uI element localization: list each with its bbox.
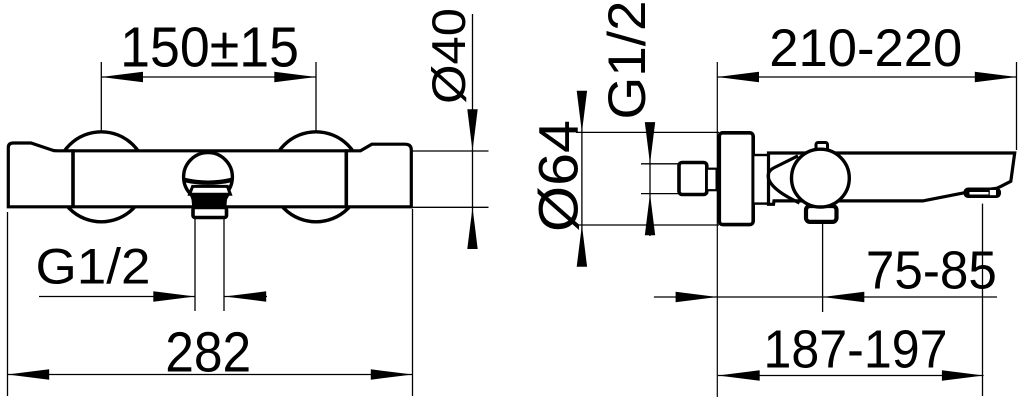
arrow right of 187-197 — [942, 370, 984, 380]
top nub — [816, 143, 828, 155]
svg-text:210-220: 210-220 — [769, 19, 962, 78]
sphere band — [184, 180, 232, 183]
arrow up Ø40 — [467, 207, 477, 249]
dim line — [8, 374, 413, 376]
handle circle — [792, 149, 850, 207]
centerline handle — [822, 222, 824, 312]
arrow left of 210-220 — [717, 72, 759, 82]
divider left — [71, 149, 75, 206]
aerator white dash — [970, 192, 989, 195]
ext line bottom — [576, 224, 719, 226]
svg-text:Ø64: Ø64 — [527, 120, 590, 232]
arrow down G1/2 right — [645, 122, 655, 164]
nipple G1/2 — [679, 163, 707, 195]
ext line left — [7, 212, 9, 396]
arrow left of 150±15 — [101, 72, 143, 82]
arrow down Ø40 — [467, 109, 477, 151]
dim line vertical — [649, 124, 651, 236]
arrow right of 282 — [371, 369, 413, 379]
pipe left edge — [194, 219, 196, 312]
ext line right (spout tip) — [1016, 62, 1018, 150]
nut — [193, 208, 227, 218]
aerator white notch — [990, 190, 996, 195]
pipe right edge — [223, 219, 225, 312]
ext line top — [412, 150, 489, 152]
svg-text:75-85: 75-85 — [866, 241, 997, 301]
arrow left at handle center — [823, 292, 865, 302]
svg-text:187-197: 187-197 — [764, 319, 948, 379]
arrow left of 282 — [8, 369, 50, 379]
leader line left — [39, 296, 195, 298]
arrow up Ø64 — [577, 225, 587, 267]
arrow right at wall — [676, 292, 718, 302]
arrow down Ø64 — [577, 91, 587, 133]
arrow up G1/2 right — [645, 194, 655, 236]
dim line — [654, 296, 997, 298]
sphere knob — [184, 153, 233, 202]
body + spout outline — [769, 153, 1015, 204]
left rosette circle — [56, 132, 146, 222]
dim line — [101, 76, 316, 78]
ext line right — [412, 209, 414, 396]
dim line vertical — [472, 14, 474, 240]
ext line top — [641, 163, 678, 165]
dim line vertical — [581, 102, 583, 258]
dim line — [717, 76, 1016, 78]
arrow left into pipe — [225, 291, 267, 301]
aerator pill — [964, 188, 1002, 199]
connector — [753, 155, 768, 204]
ext line bottom — [413, 206, 489, 208]
leader line right — [225, 296, 268, 298]
wall line — [716, 62, 718, 397]
ext line right — [315, 62, 317, 131]
right rosette circle — [271, 132, 361, 222]
ext line left — [100, 62, 102, 131]
flange — [707, 169, 717, 191]
arrow right of 210-220 — [975, 72, 1017, 82]
ext line top — [576, 131, 719, 133]
diverter knob below — [806, 206, 837, 222]
divider right — [344, 149, 348, 206]
svg-text:G1/2: G1/2 — [598, 1, 657, 120]
rosette (side) — [719, 133, 753, 225]
arrow right of 150±15 — [274, 72, 316, 82]
svg-text:Ø40: Ø40 — [422, 8, 475, 104]
dim line — [718, 375, 984, 377]
knob ring trapezoid — [190, 186, 231, 194]
svg-text:282: 282 — [165, 321, 251, 385]
ext line bottom — [641, 193, 678, 195]
funnel cone curve — [768, 156, 799, 203]
svg-text:150±15: 150±15 — [120, 15, 299, 79]
arrow right into pipe — [153, 291, 195, 301]
body outline — [8, 143, 411, 207]
ext line aerator — [982, 204, 984, 396]
knob neck black — [190, 194, 231, 207]
arrow left of 187-197 — [718, 370, 760, 380]
svg-text:G1/2: G1/2 — [36, 239, 151, 295]
